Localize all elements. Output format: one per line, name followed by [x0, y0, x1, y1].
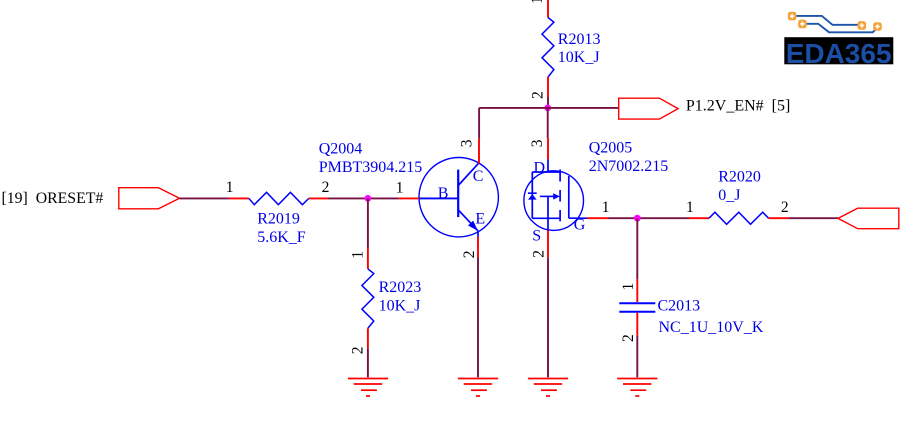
- pin 1 lead: [689, 217, 709, 219]
- capacitor plate: [619, 302, 655, 304]
- pin 1 lead: [547, 0, 549, 18]
- resistor R2020 zigzag body: [709, 212, 768, 224]
- off-page connector flag P1.2V_EN#: [619, 98, 678, 119]
- wire: [477, 258, 479, 378]
- resistor R2020: [686, 169, 789, 225]
- resistor R2013: [529, 0, 600, 99]
- svg-text:1: 1: [350, 251, 367, 259]
- logo trace: [807, 24, 878, 33]
- node junction: [634, 215, 641, 222]
- wire: [328, 197, 399, 199]
- ground: [348, 379, 388, 397]
- svg-text:S: S: [532, 227, 541, 244]
- logo trace: [796, 16, 857, 25]
- pin 3 collector lead: [478, 139, 480, 164]
- pin 2 lead: [309, 197, 328, 199]
- emitter stub: [477, 231, 479, 237]
- svg-text:C2013: C2013: [658, 298, 701, 315]
- pin 2 source lead: [547, 230, 549, 257]
- svg-text:10K_J: 10K_J: [558, 49, 600, 66]
- resistor R2023: [350, 198, 422, 354]
- base line: [419, 197, 458, 199]
- wire: [367, 349, 369, 377]
- svg-text:G: G: [574, 216, 586, 233]
- svg-text:R2013: R2013: [558, 31, 601, 48]
- body diode cathode bar: [528, 192, 537, 194]
- gate plate: [568, 176, 570, 218]
- logo pad crosses: [790, 14, 880, 29]
- svg-text:1: 1: [686, 199, 694, 216]
- gate line: [569, 217, 587, 219]
- off-page connector flag ORESET#: [119, 188, 180, 209]
- resistor R2013 zigzag body: [542, 18, 554, 78]
- channel dash: [559, 190, 561, 202]
- node junction: [365, 195, 372, 202]
- transistor Q2004: [319, 139, 499, 258]
- base bar: [457, 170, 459, 218]
- body left line: [531, 172, 533, 218]
- svg-text:2: 2: [322, 179, 330, 196]
- pin 2 lead: [636, 313, 638, 336]
- substrate arrow line: [540, 195, 554, 197]
- transistor Q2005: [524, 138, 668, 258]
- svg-text:EDA365: EDA365: [786, 38, 892, 69]
- wire: [636, 218, 638, 279]
- pin 2 lead: [769, 217, 789, 219]
- svg-text:2: 2: [461, 251, 478, 259]
- svg-text:[19] ORESET#: [19] ORESET#: [2, 190, 104, 207]
- wire: [367, 198, 369, 248]
- ground: [458, 379, 498, 397]
- svg-text:3: 3: [529, 139, 546, 147]
- svg-text:P1.2V_EN# [5]: P1.2V_EN# [5]: [686, 97, 790, 114]
- body diode triangle: [528, 194, 537, 200]
- wire: [479, 107, 619, 109]
- wire: [478, 108, 480, 139]
- svg-text:B: B: [438, 185, 449, 202]
- pin 1 gate lead: [587, 217, 609, 219]
- pin 2 lead: [367, 328, 369, 349]
- svg-text:D: D: [534, 159, 546, 176]
- svg-text:R2023: R2023: [379, 279, 422, 296]
- drain bar: [532, 171, 560, 173]
- logo pads: [788, 12, 882, 31]
- resistor R2019: [226, 179, 330, 246]
- pin 1 base lead: [399, 197, 419, 199]
- svg-text:Q2005: Q2005: [589, 140, 633, 157]
- off-page connector flag output: [838, 208, 899, 229]
- substrate arrow head: [553, 193, 560, 199]
- node junction: [544, 105, 551, 112]
- svg-text:1: 1: [602, 199, 610, 216]
- svg-text:1: 1: [396, 180, 404, 197]
- source bar: [532, 217, 560, 219]
- capacitor C2013: [619, 279, 764, 342]
- emitter arrow: [468, 221, 478, 231]
- pin 2 lead: [547, 77, 549, 97]
- wire: [609, 217, 690, 219]
- resistor R2019 zigzag body: [249, 192, 309, 204]
- svg-text:2: 2: [350, 346, 367, 354]
- pin 1 lead: [367, 248, 369, 269]
- svg-text:2: 2: [530, 91, 547, 99]
- svg-text:1: 1: [620, 283, 637, 291]
- pin 3 drain lead: [547, 138, 549, 160]
- wire: [636, 336, 638, 378]
- svg-text:Q2004: Q2004: [319, 141, 363, 158]
- source inner line: [547, 196, 549, 218]
- svg-text:NC_1U_10V_K: NC_1U_10V_K: [659, 319, 764, 336]
- emitter line: [458, 210, 478, 231]
- svg-text:E: E: [475, 211, 485, 228]
- wire: [788, 217, 838, 219]
- svg-text:2: 2: [781, 199, 789, 216]
- source stub: [547, 218, 549, 230]
- ground: [617, 379, 657, 397]
- logo black box: [784, 37, 893, 64]
- svg-text:R2020: R2020: [718, 169, 761, 186]
- collector line: [458, 163, 479, 186]
- svg-text:2N7002.215: 2N7002.215: [589, 158, 669, 175]
- svg-text:5.6K_F: 5.6K_F: [257, 229, 306, 246]
- channel dash: [559, 210, 561, 221]
- svg-text:1: 1: [529, 0, 546, 4]
- EDA365 logo: [784, 12, 893, 69]
- svg-text:10K_J: 10K_J: [379, 298, 421, 315]
- pin 1 lead: [636, 279, 638, 302]
- transistor body circle: [419, 158, 498, 237]
- transistor body circle: [524, 171, 584, 231]
- capacitor plate: [619, 311, 655, 313]
- svg-text:C: C: [473, 168, 484, 185]
- wire: [547, 97, 549, 108]
- svg-text:2: 2: [620, 334, 637, 342]
- ground: [528, 379, 568, 397]
- svg-text:PMBT3904.215: PMBT3904.215: [319, 159, 423, 176]
- wire: [547, 258, 549, 378]
- svg-text:0_J: 0_J: [718, 187, 740, 204]
- wire: [180, 197, 229, 199]
- pin 1 lead: [229, 197, 249, 199]
- svg-text:2: 2: [530, 250, 547, 258]
- wire: [547, 108, 549, 138]
- svg-text:3: 3: [458, 139, 475, 147]
- drain stub: [547, 160, 549, 173]
- resistor R2023 zigzag body: [362, 269, 374, 328]
- channel dash: [559, 170, 561, 182]
- pin 2 emitter lead: [477, 237, 479, 258]
- svg-text:1: 1: [226, 179, 234, 196]
- svg-text:R2019: R2019: [257, 210, 300, 227]
